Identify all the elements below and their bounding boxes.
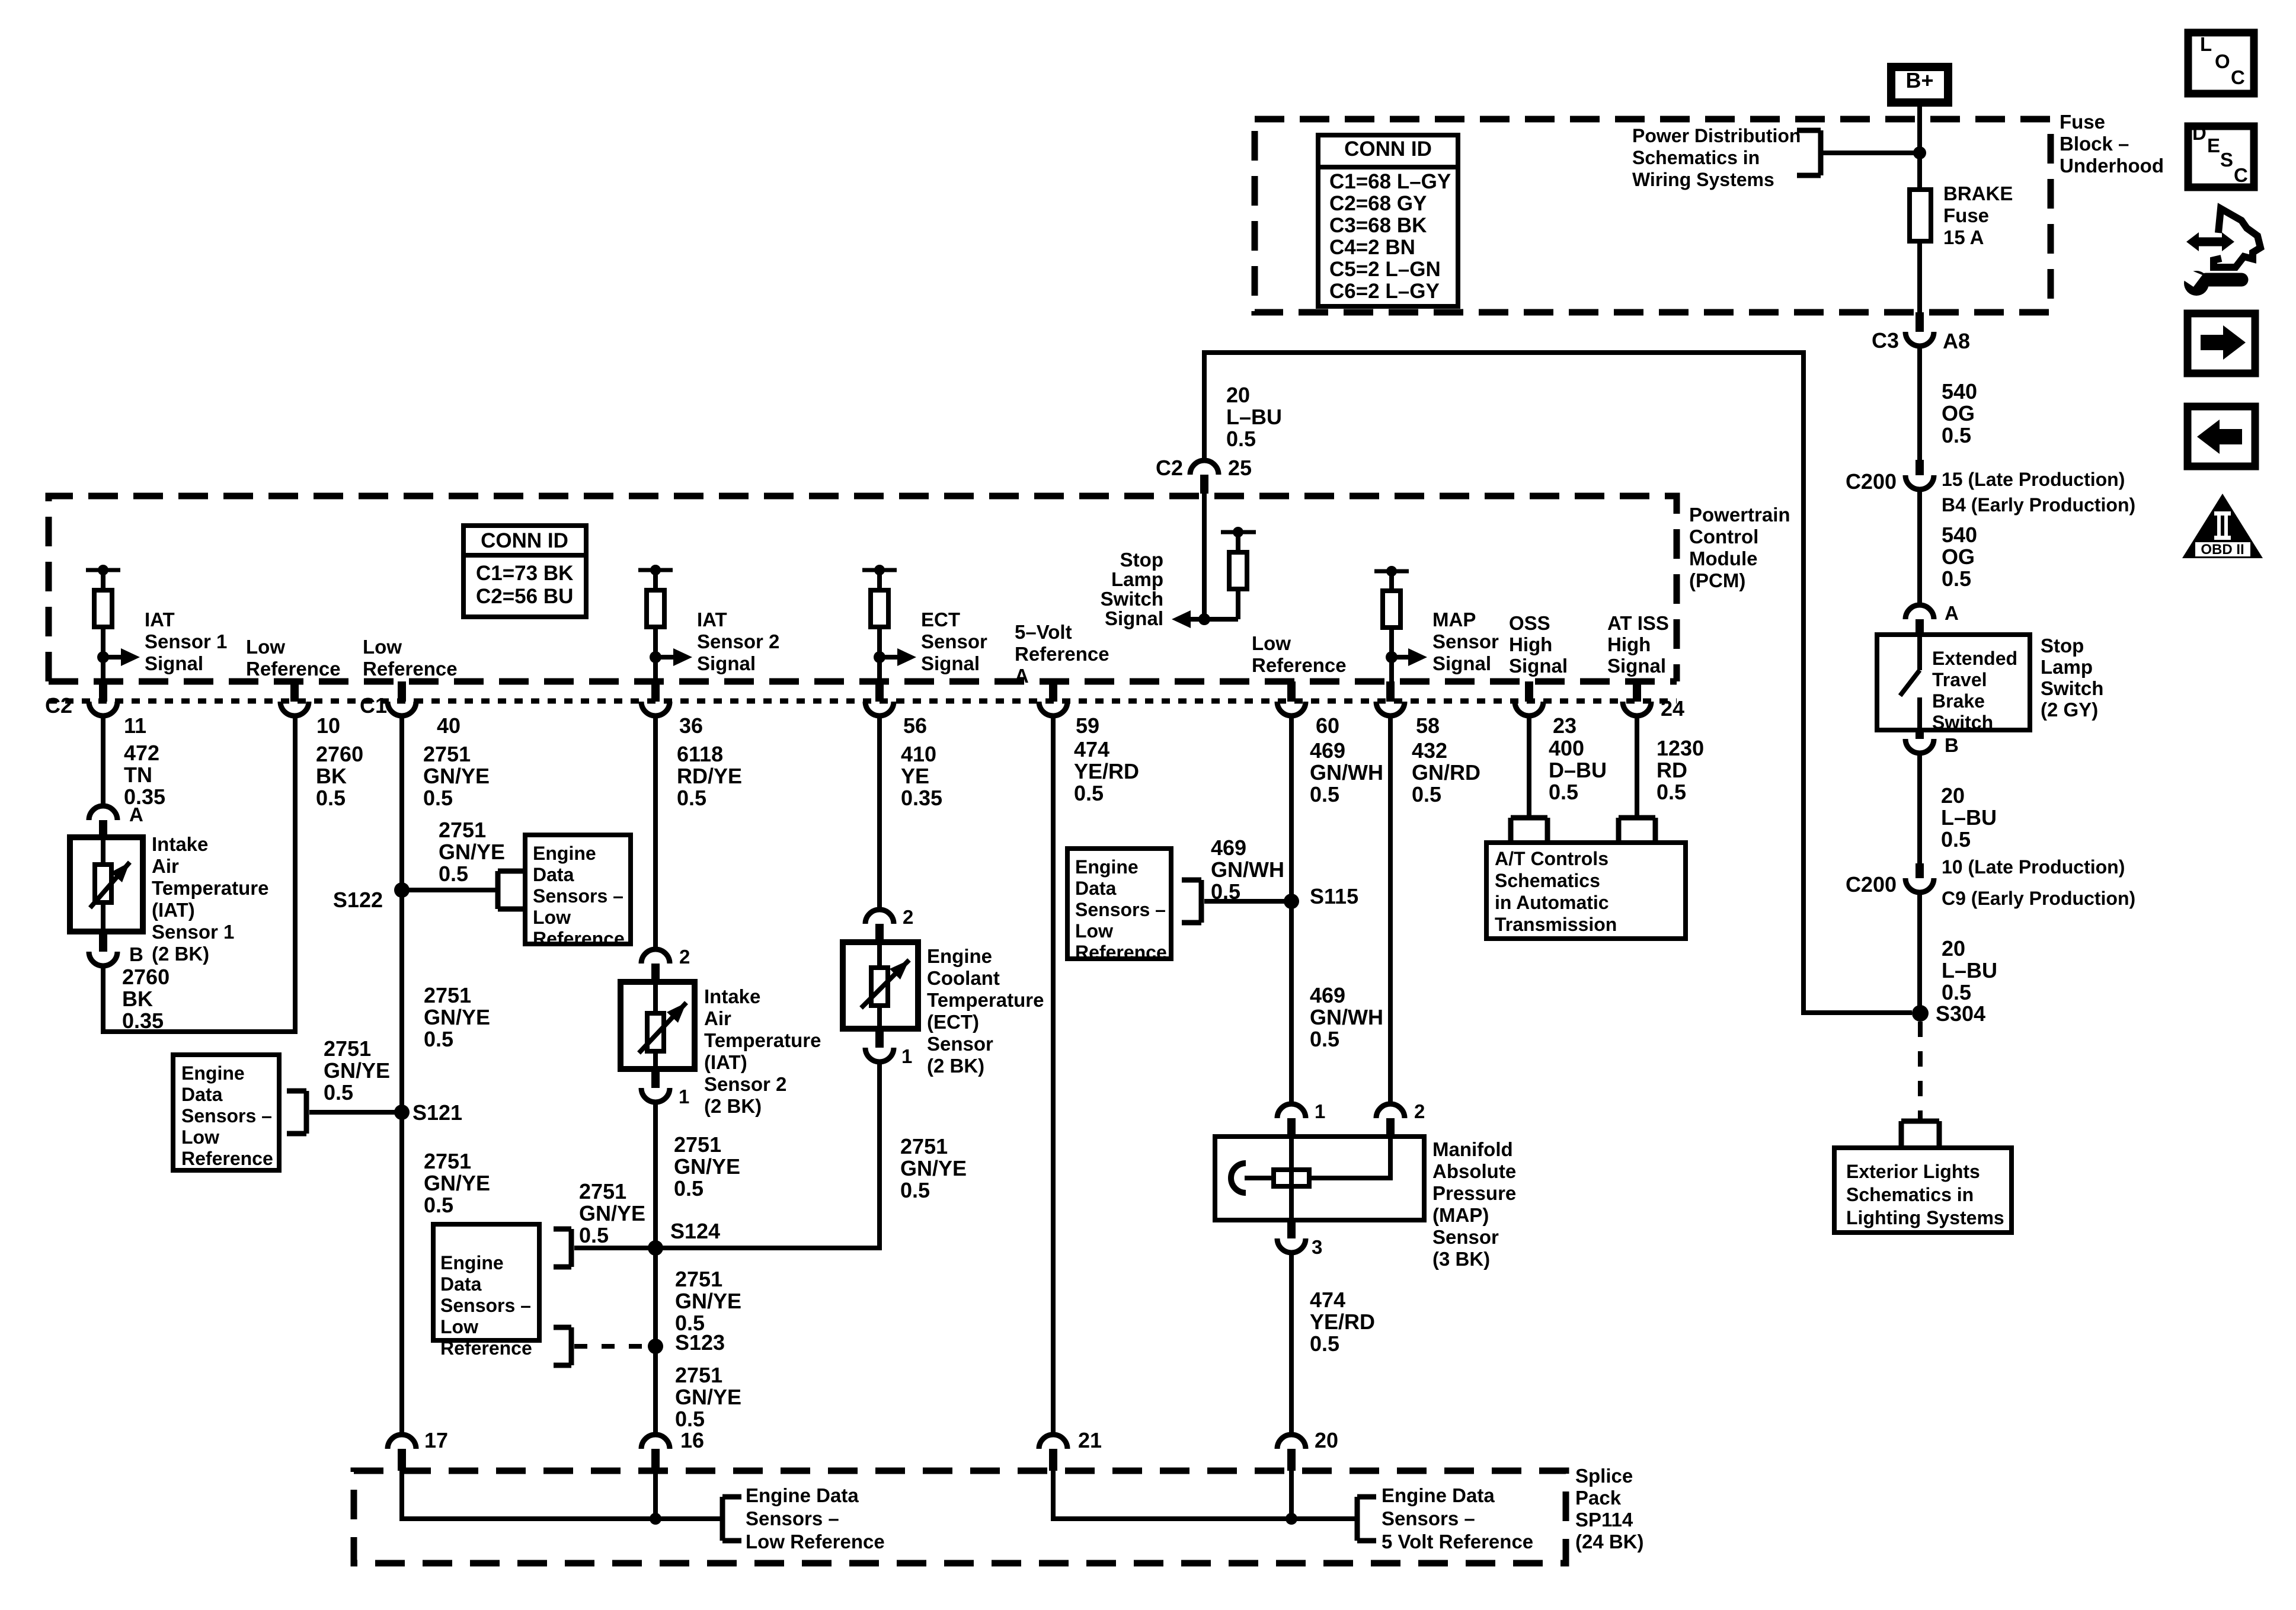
svg-text:A8: A8 <box>1943 329 1970 353</box>
svg-text:Signal: Signal <box>1509 655 1568 677</box>
svg-text:RD: RD <box>1657 758 1687 782</box>
svg-text:Powertrain: Powertrain <box>1689 504 1790 526</box>
svg-text:Wiring Systems: Wiring Systems <box>1632 169 1774 190</box>
svg-text:24: 24 <box>1661 696 1684 721</box>
label wire 2760 BK 0.5 <box>316 742 363 810</box>
svg-text:TN: TN <box>124 763 152 787</box>
svg-text:OBD II: OBD II <box>2201 542 2244 558</box>
resistor pull-up stop lamp switch signal <box>1221 527 1256 619</box>
wire S121 branch from engine data sensors box <box>309 1110 402 1115</box>
svg-text:RD/YE: RD/YE <box>677 764 742 788</box>
svg-text:A: A <box>1945 602 1959 624</box>
svg-text:Power Distribution: Power Distribution <box>1632 125 1801 146</box>
svg-text:GN/YE: GN/YE <box>675 1289 741 1313</box>
wire pin 21 to 5 volt splice <box>1053 1471 1291 1519</box>
svg-text:Coolant: Coolant <box>927 967 1000 989</box>
svg-text:2751: 2751 <box>674 1132 721 1157</box>
label wire 2751 GN/YE 0.5 at S121 branch <box>324 1036 390 1105</box>
svg-text:1: 1 <box>679 1086 689 1108</box>
bracket exterior lights reference <box>1901 1121 1939 1146</box>
connector 1 IAT sensor 2 <box>641 1069 689 1108</box>
label wire 540 OG 0.5 lower <box>1942 523 1977 591</box>
svg-text:0.5: 0.5 <box>1412 782 1441 806</box>
box Engine Data Sensors Low Reference at S121 <box>173 1055 279 1170</box>
box Engine Data Sensors Low Reference at S122 <box>525 835 631 949</box>
svg-text:in Automatic: in Automatic <box>1495 892 1609 913</box>
svg-text:High: High <box>1607 633 1651 655</box>
svg-text:Engine: Engine <box>1075 856 1139 878</box>
svg-text:GN/WH: GN/WH <box>1310 760 1383 785</box>
wire pin 20 to 5 volt splice <box>1289 1471 1294 1519</box>
box Engine Data Sensors Low Reference at S115 <box>1067 849 1171 963</box>
label Stop Lamp Switch Signal <box>1101 549 1163 629</box>
wire S124 branch to engine data sensors box <box>574 1246 655 1250</box>
sensor IAT 1 Intake Air Temperature box <box>70 837 143 932</box>
svg-text:0.5: 0.5 <box>1310 1331 1339 1356</box>
bracket splice 5 volt reference <box>1357 1497 1376 1541</box>
svg-text:15 (Late Production): 15 (Late Production) <box>1942 469 2125 490</box>
label wire 20 L-BU 0.5 mid <box>1941 783 1997 852</box>
svg-text:B4 (Early Production): B4 (Early Production) <box>1942 494 2135 516</box>
svg-text:59: 59 <box>1076 713 1099 738</box>
PCM pin 11 connector <box>45 681 146 738</box>
svg-text:IAT: IAT <box>697 609 727 630</box>
svg-text:40: 40 <box>437 713 461 738</box>
PCM pin 56 connector <box>865 681 927 738</box>
svg-text:Schematics: Schematics <box>1495 870 1600 891</box>
wire junction to low reference bracket <box>655 1516 720 1521</box>
svg-text:2: 2 <box>903 906 913 928</box>
svg-text:GN/YE: GN/YE <box>579 1201 645 1225</box>
connector A brake switch <box>1905 602 1959 635</box>
wire C200 to brake switch <box>1917 489 1922 605</box>
label Stop Lamp Switch 2 GY <box>2041 635 2103 721</box>
splice S115 <box>1284 884 1358 909</box>
fuse F BRAKE 15 A <box>1910 183 2013 248</box>
svg-text:0.5: 0.5 <box>424 1193 453 1217</box>
icon left arrow box <box>2188 406 2255 466</box>
wire S124 to ECT low reference <box>655 1062 880 1248</box>
svg-text:Low: Low <box>440 1316 478 1337</box>
svg-text:0.5: 0.5 <box>1657 780 1686 804</box>
label OSS High Signal pin 23 <box>1509 612 1568 677</box>
icon DESC box <box>2188 122 2254 187</box>
splice pack pin 17 connector <box>388 1428 448 1471</box>
PCM pin 40 connector <box>360 681 461 738</box>
svg-text:Signal: Signal <box>1105 607 1163 629</box>
box Exterior Lights Schematics in Lighting Systems <box>1834 1148 2012 1233</box>
svg-text:36: 36 <box>679 713 703 738</box>
svg-text:Sensor 2: Sensor 2 <box>704 1073 786 1095</box>
svg-text:Low: Low <box>181 1126 219 1148</box>
label wire 469 GN/WH 0.5 at S115 branch <box>1211 836 1284 904</box>
svg-text:C9 (Early Production): C9 (Early Production) <box>1942 888 2135 909</box>
svg-text:6118: 6118 <box>677 742 723 766</box>
svg-text:Temperature: Temperature <box>152 877 268 899</box>
svg-text:469: 469 <box>1211 836 1246 860</box>
svg-text:Exterior Lights: Exterior Lights <box>1846 1161 1980 1182</box>
svg-text:0.5: 0.5 <box>1942 980 1971 1004</box>
svg-text:Sensor: Sensor <box>1432 630 1499 652</box>
svg-text:Underhood: Underhood <box>2060 155 2164 177</box>
svg-text:0.35: 0.35 <box>122 1009 164 1033</box>
svg-text:Stop: Stop <box>2041 635 2084 657</box>
svg-text:Sensor: Sensor <box>927 1033 993 1055</box>
wire 1230 RD pin 24 <box>1635 716 1639 818</box>
svg-text:Sensors –: Sensors – <box>181 1105 272 1126</box>
svg-text:High: High <box>1509 633 1552 655</box>
svg-text:2751: 2751 <box>675 1363 722 1387</box>
svg-text:474: 474 <box>1074 737 1109 761</box>
svg-text:Switch: Switch <box>2041 677 2103 699</box>
box A/T Controls Schematics in Automatic Transmission <box>1486 843 1686 939</box>
svg-text:2751: 2751 <box>439 818 486 842</box>
connector B IAT sensor 1 <box>89 932 143 966</box>
svg-text:S115: S115 <box>1310 884 1358 908</box>
svg-text:474: 474 <box>1310 1288 1345 1312</box>
svg-text:Sensor 2: Sensor 2 <box>697 630 779 652</box>
svg-text:15 A: 15 A <box>1943 226 1984 248</box>
PCM pin 10 connector <box>280 681 340 738</box>
bracket splice low reference <box>722 1497 741 1541</box>
wire C3 to C200 <box>1917 346 1922 460</box>
svg-text:GN/YE: GN/YE <box>675 1385 741 1409</box>
label wire 474 YE/RD 0.5 below MAP <box>1310 1288 1375 1356</box>
Powertrain Control Module PCM dashed box <box>49 496 1677 681</box>
node junction on B+ wire <box>1913 146 1926 159</box>
label wire 2751 GN/YE 0.5 below pin 40 <box>423 742 490 810</box>
wire stop lamp arrow line <box>1191 613 1238 625</box>
svg-text:23: 23 <box>1553 713 1576 738</box>
svg-text:S122: S122 <box>333 888 383 912</box>
bracket S124 to low reference box <box>554 1229 571 1267</box>
wire S115 branch from engine data sensors box <box>1204 899 1291 904</box>
svg-text:Signal: Signal <box>1607 655 1666 677</box>
label wire 400 D-BU 0.5 <box>1549 736 1607 804</box>
wire IAT2 pin 1 to S124 <box>653 1102 658 1435</box>
svg-text:C1=68 L–GY: C1=68 L–GY <box>1329 170 1451 193</box>
svg-text:C2=68 GY: C2=68 GY <box>1329 192 1427 215</box>
splice pack SP114 dashed box <box>354 1471 1566 1563</box>
svg-text:(2 BK): (2 BK) <box>927 1055 984 1077</box>
svg-text:0.5: 0.5 <box>424 1027 453 1051</box>
label wire 432 GN/RD 0.5 <box>1412 738 1480 806</box>
svg-text:17: 17 <box>424 1428 448 1452</box>
svg-text:OG: OG <box>1942 545 1975 569</box>
label wire 1230 RD 0.5 <box>1657 736 1704 804</box>
svg-text:B: B <box>1945 734 1959 756</box>
label Low Reference pin 60 <box>1252 632 1347 676</box>
label wire 2751 GN/YE 0.5 below IAT2 <box>674 1132 740 1201</box>
svg-text:Temperature: Temperature <box>927 989 1044 1011</box>
svg-text:Fuse: Fuse <box>2060 111 2105 133</box>
svg-text:Lamp: Lamp <box>1111 568 1163 590</box>
svg-text:A: A <box>1015 665 1029 687</box>
svg-text:11: 11 <box>124 713 146 738</box>
resistor pull-up IAT sensor 2 signal <box>638 565 779 702</box>
svg-text:0.5: 0.5 <box>1941 827 1971 852</box>
svg-text:A/T Controls: A/T Controls <box>1495 848 1609 869</box>
label Low Reference pin 10 <box>246 636 341 680</box>
svg-text:21: 21 <box>1078 1428 1102 1452</box>
svg-text:Switch: Switch <box>1101 588 1163 610</box>
svg-text:C2=56 BU: C2=56 BU <box>476 585 573 608</box>
label wire 469 GN/WH 0.5 below pin 60 <box>1310 738 1383 806</box>
svg-text:Reference: Reference <box>1252 654 1347 676</box>
svg-text:A: A <box>129 804 143 825</box>
svg-text:0.5: 0.5 <box>439 862 468 886</box>
svg-text:Extended: Extended <box>1932 648 2017 669</box>
svg-text:16: 16 <box>680 1428 704 1452</box>
label wire 469 GN/WH 0.5 below S115 <box>1310 983 1383 1051</box>
svg-text:GN/WH: GN/WH <box>1310 1005 1383 1029</box>
svg-text:Control: Control <box>1689 526 1758 548</box>
svg-text:Switch: Switch <box>1932 712 1993 733</box>
svg-text:25: 25 <box>1228 456 1252 480</box>
label wire 2751 GN/YE 0.5 below S124 <box>675 1267 741 1335</box>
splice pack pin 21 connector <box>1039 1428 1102 1471</box>
svg-text:0.5: 0.5 <box>674 1176 703 1201</box>
node splice 5 volt junction <box>1285 1513 1297 1525</box>
label wire 2751 GN/YE 0.5 at S122 <box>439 818 505 886</box>
svg-text:2: 2 <box>1414 1100 1425 1122</box>
svg-text:0.5: 0.5 <box>1074 781 1104 805</box>
resistor pull-up MAP sensor signal <box>1374 566 1499 702</box>
svg-text:Block –: Block – <box>2060 133 2129 155</box>
label Power Distribution Schematics in Wiring Systems <box>1632 125 1801 190</box>
svg-text:2751: 2751 <box>424 983 471 1007</box>
PCM pin 24 connector <box>1623 681 1684 721</box>
svg-text:(PCM): (PCM) <box>1689 569 1745 591</box>
svg-text:Low: Low <box>363 636 402 658</box>
svg-text:472: 472 <box>124 741 159 765</box>
svg-text:Engine Data: Engine Data <box>1382 1484 1495 1506</box>
svg-text:L: L <box>2200 33 2212 55</box>
connector 3 MAP sensor <box>1277 1220 1322 1258</box>
svg-text:C6=2 L–GY: C6=2 L–GY <box>1329 280 1440 303</box>
svg-text:2: 2 <box>679 946 690 968</box>
PCM pin 36 connector <box>641 681 703 738</box>
svg-text:L–BU: L–BU <box>1941 805 1997 830</box>
bracket pin 23 to A/T controls <box>1511 818 1547 841</box>
svg-text:20: 20 <box>1315 1428 1338 1452</box>
svg-text:2760: 2760 <box>316 742 363 766</box>
label wire 2760 BK 0.35 <box>122 965 170 1033</box>
svg-text:B+: B+ <box>1905 68 1933 92</box>
svg-text:0.5: 0.5 <box>1310 1027 1339 1051</box>
svg-text:Air: Air <box>704 1007 731 1029</box>
svg-text:0.5: 0.5 <box>324 1080 353 1105</box>
CONN ID table for PCM <box>463 526 586 617</box>
svg-text:C2: C2 <box>1156 456 1183 480</box>
svg-text:Sensors –: Sensors – <box>1075 899 1166 920</box>
PCM pin 60 connector <box>1277 681 1339 738</box>
svg-text:Low: Low <box>1075 920 1113 942</box>
svg-text:D–BU: D–BU <box>1549 758 1607 782</box>
wire 472 TN pin 11 to IAT sensor 1 <box>101 716 105 806</box>
wire fuse to connector C3 <box>1917 241 1922 313</box>
dashed wire S123 branch to box <box>574 1344 643 1349</box>
svg-text:1: 1 <box>1315 1100 1325 1122</box>
wire 469 GN/WH pin 60 to MAP sensor <box>1289 716 1294 1104</box>
label 5-Volt Reference A pin 59 <box>1015 621 1109 687</box>
svg-text:MAP: MAP <box>1432 609 1476 630</box>
svg-text:Air: Air <box>152 855 179 877</box>
switch SW extended travel brake switch box <box>1877 635 2030 733</box>
resistor pull-up IAT sensor 1 signal <box>86 565 227 702</box>
wire 2751 GN/YE pin 40 low reference <box>399 716 404 1435</box>
svg-text:C3=68 BK: C3=68 BK <box>1329 214 1427 237</box>
svg-text:Lamp: Lamp <box>2041 656 2093 678</box>
svg-text:(IAT): (IAT) <box>152 899 195 921</box>
svg-text:SP114: SP114 <box>1575 1509 1633 1531</box>
label wire 20 L-BU 0.5 top <box>1226 383 1282 451</box>
PCM pin 23 connector <box>1515 681 1576 738</box>
node splice low reference junction <box>650 1513 661 1525</box>
splice pack pin 20 connector <box>1277 1428 1338 1471</box>
svg-text:CONN ID: CONN ID <box>1344 137 1432 161</box>
svg-text:Sensor 1: Sensor 1 <box>145 630 227 652</box>
svg-text:Travel: Travel <box>1932 669 1987 690</box>
label Engine Data Sensors Low Reference splice <box>746 1484 885 1553</box>
icon right arrow box <box>2188 313 2255 373</box>
splice pack pin 16 connector <box>641 1428 704 1471</box>
svg-text:0.5: 0.5 <box>1211 879 1240 904</box>
bracket S123 to low reference box <box>554 1327 571 1365</box>
svg-text:432: 432 <box>1412 738 1447 763</box>
connector C3 A8 fuse block output <box>1872 312 1970 353</box>
bracket S122 to low reference box <box>498 871 523 909</box>
svg-text:Data: Data <box>1075 878 1117 899</box>
svg-text:Module: Module <box>1689 548 1757 569</box>
svg-text:Brake: Brake <box>1932 690 1985 712</box>
svg-text:Engine: Engine <box>440 1252 504 1273</box>
svg-text:Schematics in: Schematics in <box>1632 147 1760 168</box>
label Intake Air Temperature IAT Sensor 1 <box>152 833 268 965</box>
svg-text:GN/YE: GN/YE <box>674 1154 740 1179</box>
PCM bottom dashed edge <box>49 678 1677 685</box>
svg-text:0.5: 0.5 <box>316 786 346 810</box>
splice S123 <box>648 1330 725 1355</box>
bracket Power Distribution reference <box>1797 130 1821 175</box>
svg-text:S: S <box>2220 149 2233 171</box>
svg-text:Absolute: Absolute <box>1432 1160 1516 1182</box>
svg-text:ECT: ECT <box>921 609 960 630</box>
connector C200 pin 15 <box>1846 460 2135 516</box>
svg-text:Signal: Signal <box>921 652 980 674</box>
svg-text:(IAT): (IAT) <box>704 1051 747 1073</box>
svg-text:OG: OG <box>1942 401 1975 425</box>
svg-text:YE/RD: YE/RD <box>1074 759 1139 783</box>
svg-text:C200: C200 <box>1846 872 1897 897</box>
svg-text:1: 1 <box>901 1045 912 1067</box>
resistor pull-up ECT sensor signal <box>862 565 987 702</box>
label AT ISS High Signal pin 24 <box>1607 612 1669 677</box>
label Engine Coolant Temperature ECT Sensor <box>927 945 1044 1077</box>
svg-text:0.5: 0.5 <box>900 1178 930 1202</box>
svg-text:C4=2 BN: C4=2 BN <box>1329 236 1415 259</box>
svg-text:Sensor: Sensor <box>921 630 987 652</box>
svg-text:(MAP): (MAP) <box>1432 1204 1489 1226</box>
svg-text:Splice: Splice <box>1575 1465 1633 1487</box>
connector C200 pin 10 C9 <box>1846 856 2135 909</box>
svg-text:Engine: Engine <box>533 843 596 864</box>
wire B+ to BRAKE fuse <box>1917 103 1922 190</box>
svg-text:GN/YE: GN/YE <box>423 764 490 788</box>
svg-text:L–BU: L–BU <box>1226 405 1282 429</box>
svg-text:C2: C2 <box>45 693 72 718</box>
svg-text:Signal: Signal <box>145 652 203 674</box>
svg-text:Reference: Reference <box>363 658 458 680</box>
wire C2 pin 25 into PCM <box>1202 494 1207 619</box>
svg-text:0.5: 0.5 <box>677 786 706 810</box>
svg-text:YE: YE <box>901 764 929 788</box>
connector A IAT sensor 1 <box>89 804 143 837</box>
svg-text:IAT: IAT <box>145 609 175 630</box>
svg-text:GN/YE: GN/YE <box>424 1171 490 1195</box>
wire 474 YE/RD MAP pin 3 to splice pack <box>1289 1253 1294 1435</box>
svg-text:Sensors –: Sensors – <box>1382 1507 1475 1529</box>
svg-text:20: 20 <box>1226 383 1250 407</box>
svg-text:GN/YE: GN/YE <box>424 1005 490 1029</box>
svg-text:410: 410 <box>901 742 936 766</box>
svg-text:469: 469 <box>1310 738 1345 763</box>
svg-text:Pressure: Pressure <box>1432 1182 1516 1204</box>
svg-text:Engine: Engine <box>181 1062 245 1084</box>
wire stop lamp feed from C2 25 to S304 <box>1204 353 1912 1013</box>
svg-text:2751: 2751 <box>675 1267 722 1291</box>
fuse block - underhood dashed box <box>1255 119 2051 312</box>
svg-text:60: 60 <box>1316 713 1339 738</box>
wire to Power Distribution bracket <box>1822 151 1920 155</box>
wire 410 YE pin 56 to ECT sensor <box>877 716 882 910</box>
sensor IAT 2 Intake Air Temperature box <box>621 982 695 1069</box>
svg-text:B: B <box>129 943 143 965</box>
connector 1 ECT sensor <box>865 1029 912 1067</box>
svg-text:C3: C3 <box>1872 328 1899 353</box>
svg-text:0.5: 0.5 <box>1549 780 1578 804</box>
svg-text:56: 56 <box>903 713 927 738</box>
svg-text:Schematics in: Schematics in <box>1846 1184 1974 1205</box>
svg-text:Data: Data <box>440 1273 482 1295</box>
svg-text:Intake: Intake <box>152 833 208 855</box>
svg-text:C: C <box>2231 66 2245 88</box>
svg-text:469: 469 <box>1310 983 1345 1007</box>
svg-text:BK: BK <box>316 764 347 788</box>
svg-text:Reference: Reference <box>440 1337 532 1359</box>
wire 474 YE/RD pin 59 to splice pack <box>1051 716 1056 1435</box>
label wire 20 L-BU 0.5 lower <box>1942 936 1997 1004</box>
svg-text:Sensors –: Sensors – <box>533 885 623 907</box>
svg-text:5 Volt Reference: 5 Volt Reference <box>1382 1531 1533 1553</box>
label wire 540 OG 0.5 upper <box>1942 379 1977 447</box>
svg-text:Reference: Reference <box>181 1148 273 1169</box>
svg-text:GN/YE: GN/YE <box>900 1156 967 1180</box>
bracket S121 from low reference box <box>287 1091 306 1134</box>
icon LOC box <box>2188 33 2254 94</box>
svg-text:0.5: 0.5 <box>1942 566 1971 591</box>
svg-text:AT ISS: AT ISS <box>1607 612 1669 634</box>
svg-text:S121: S121 <box>412 1100 462 1125</box>
svg-text:CONN ID: CONN ID <box>481 529 568 552</box>
svg-text:Sensor 1: Sensor 1 <box>152 921 234 943</box>
svg-text:3: 3 <box>1312 1236 1322 1258</box>
svg-text:Reference: Reference <box>246 658 341 680</box>
svg-text:S123: S123 <box>675 1330 725 1355</box>
svg-text:GN/YE: GN/YE <box>439 840 505 864</box>
svg-text:Sensor: Sensor <box>1432 1226 1499 1248</box>
wire 6118 RD/YE pin 36 to IAT sensor 2 <box>653 716 658 949</box>
